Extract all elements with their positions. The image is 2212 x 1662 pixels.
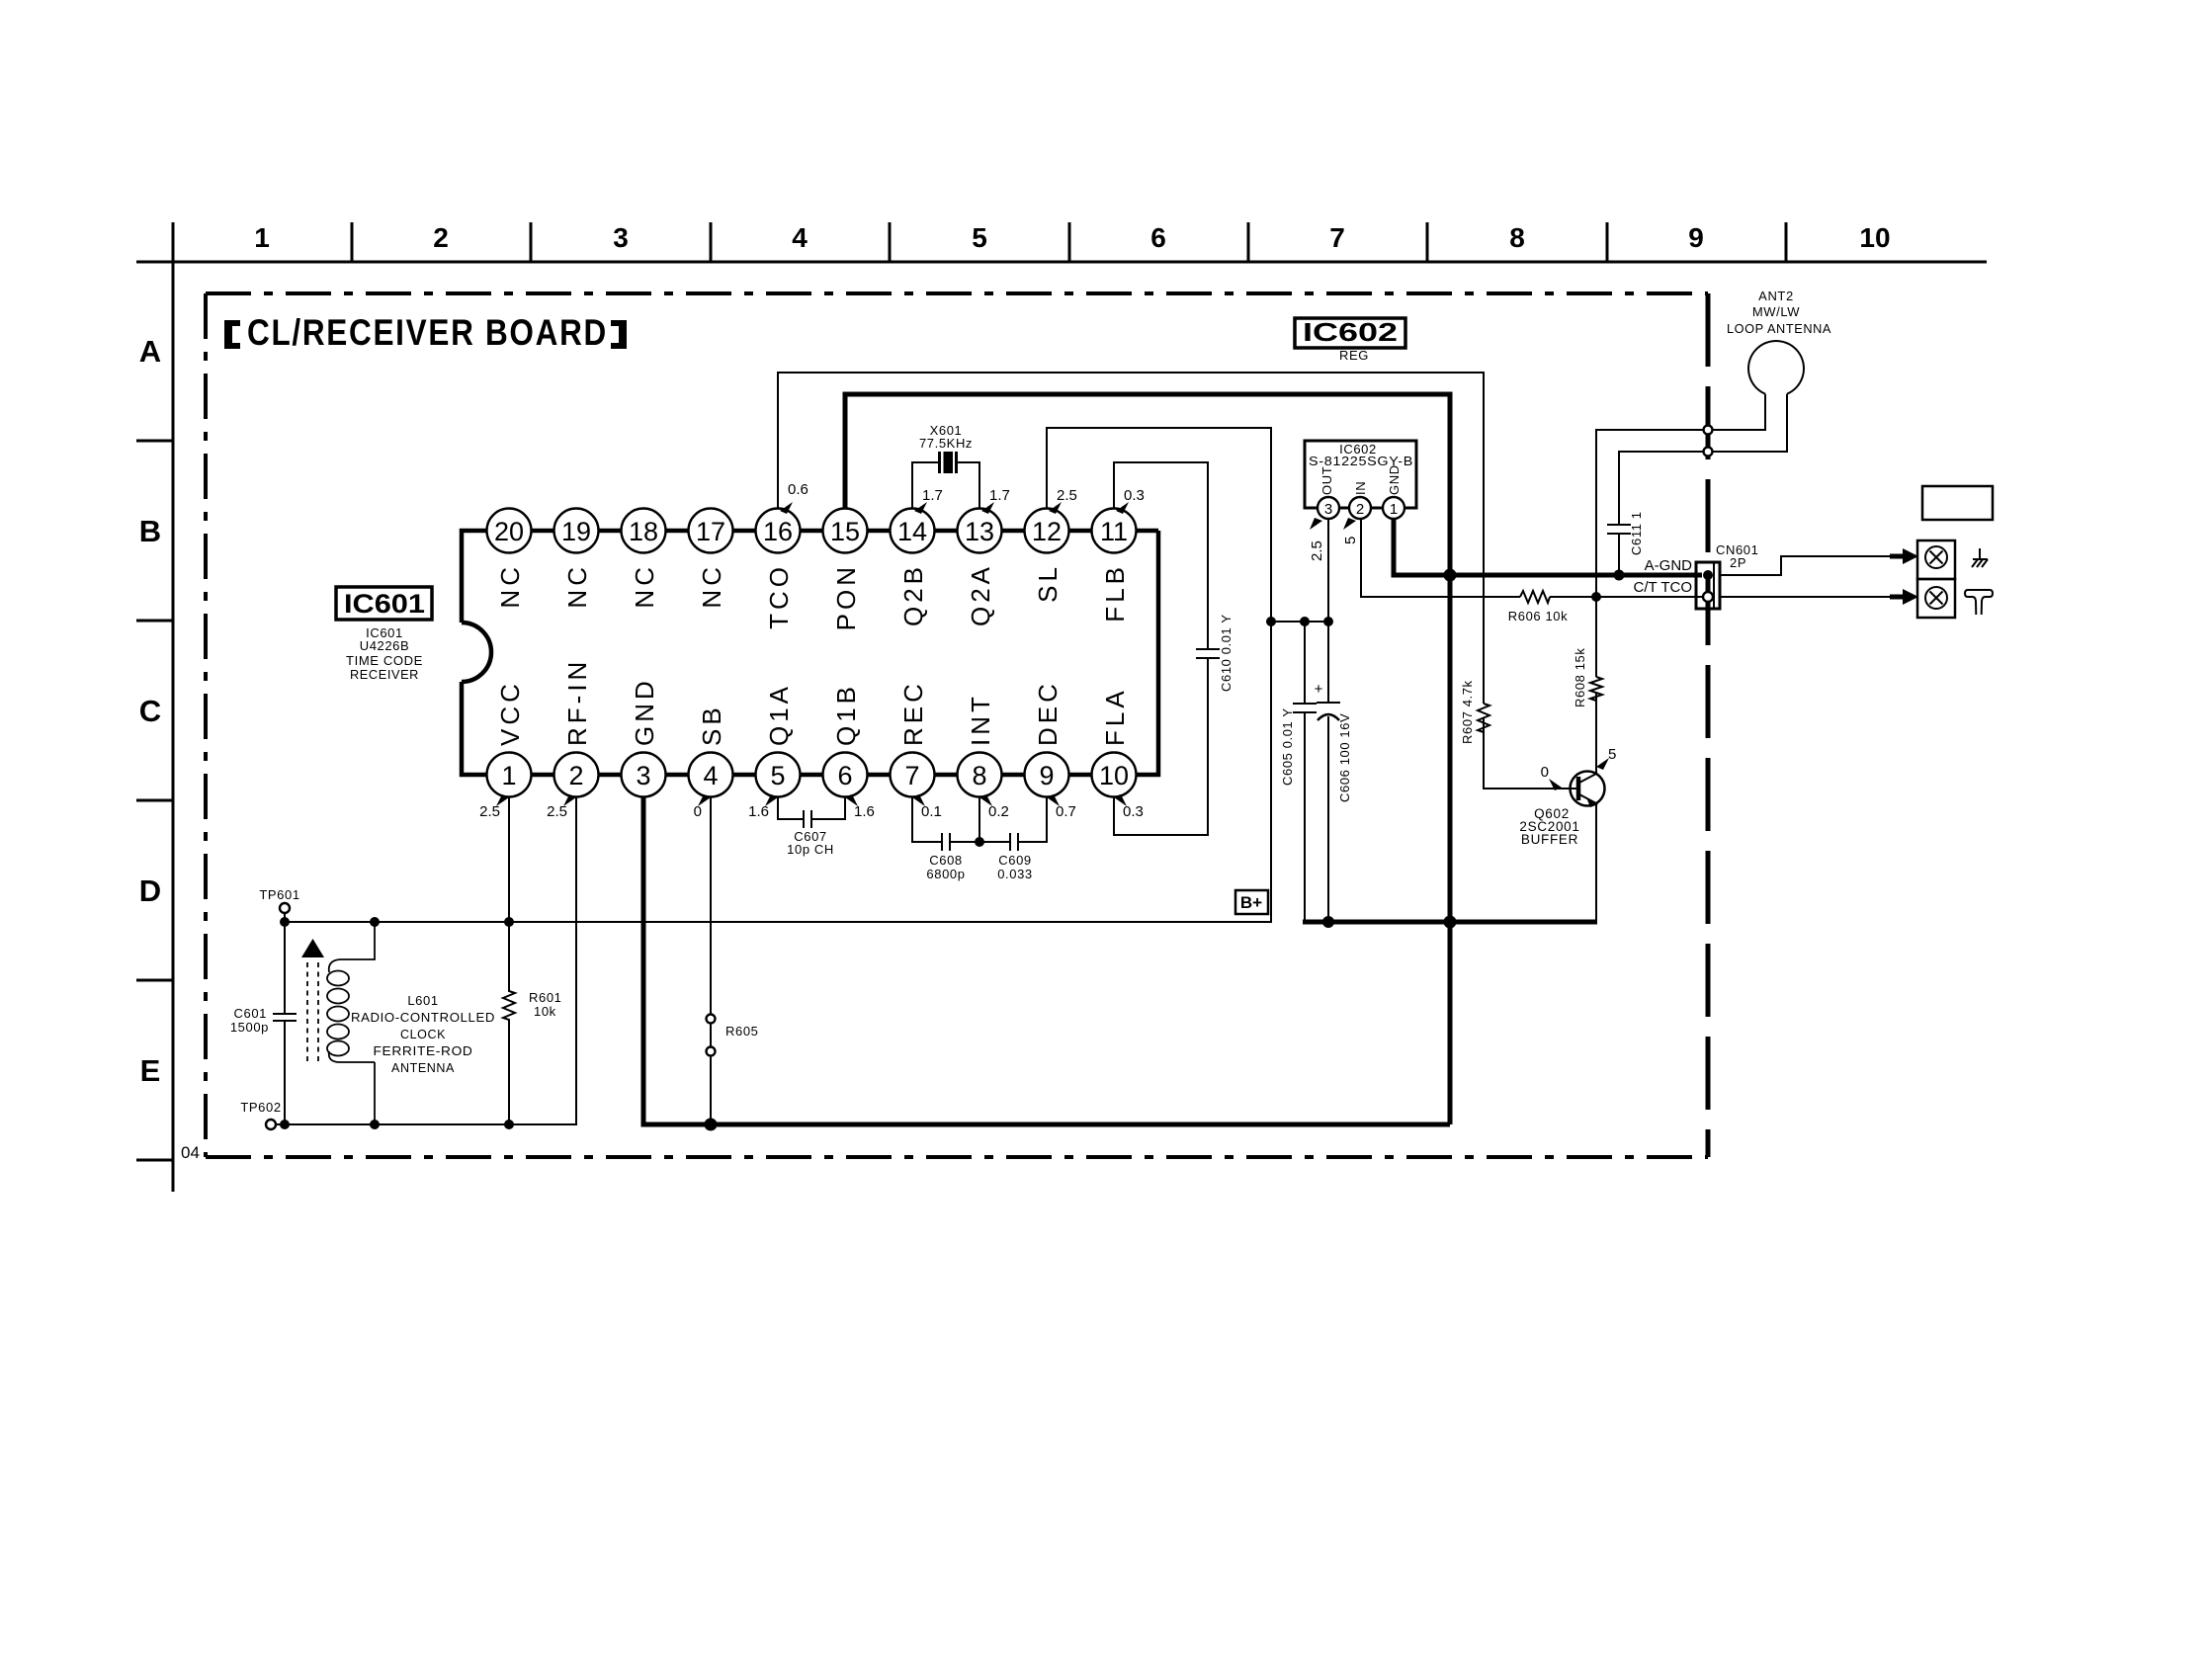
grid ruler top line xyxy=(136,222,1987,262)
svg-text:C608: C608 xyxy=(929,853,962,868)
svg-text:8: 8 xyxy=(1509,222,1525,253)
svg-text:GND: GND xyxy=(630,677,659,746)
grid row letters A-E xyxy=(139,334,161,1088)
svg-text:0.3: 0.3 xyxy=(1123,803,1144,820)
voltage label 0.3 pin11 xyxy=(1116,487,1145,514)
arrow to external C/T TCO xyxy=(1890,589,1918,605)
svg-text:D: D xyxy=(139,873,161,908)
svg-text:2.5: 2.5 xyxy=(547,803,567,820)
svg-text:CLOCK: CLOCK xyxy=(400,1027,446,1041)
svg-text:Q1A: Q1A xyxy=(764,683,794,746)
svg-text:R601: R601 xyxy=(529,990,561,1005)
test point TP601 xyxy=(259,887,299,922)
voltage label 2.5 pin1 xyxy=(479,794,509,820)
node junction A-GND thick riser xyxy=(1444,569,1457,582)
svg-text:9: 9 xyxy=(1688,222,1704,253)
node junctions GND mid rail xyxy=(1322,916,1457,929)
svg-text:MW/LW: MW/LW xyxy=(1752,304,1800,319)
svg-text:04: 04 xyxy=(181,1143,200,1162)
svg-text:5: 5 xyxy=(1342,537,1359,544)
resistor R601 10k xyxy=(503,797,561,1125)
capacitor C606 100 16V electrolytic xyxy=(1315,622,1352,922)
svg-text:14: 14 xyxy=(897,517,927,546)
svg-text:0.2: 0.2 xyxy=(988,803,1009,820)
antenna pad A-GND side xyxy=(1704,426,1713,435)
svg-text:Q2B: Q2B xyxy=(898,563,928,626)
svg-text:2.5: 2.5 xyxy=(1309,540,1325,561)
IC602 pin 1 xyxy=(1383,497,1404,519)
wire RF-IN net (pin2 down to TP602 line) xyxy=(276,797,576,1125)
svg-text:RF-IN: RF-IN xyxy=(562,658,592,746)
svg-text:10: 10 xyxy=(1859,222,1890,253)
IC601 part description labels xyxy=(346,625,423,682)
voltage label 0.6 pin16 xyxy=(780,481,808,514)
svg-text:ANT2: ANT2 xyxy=(1758,289,1794,303)
svg-text:C606 100 16V: C606 100 16V xyxy=(1337,713,1352,802)
ferrite rod arrow xyxy=(301,939,324,1062)
svg-text:BUFFER: BUFFER xyxy=(1521,832,1578,847)
svg-text:R608 15k: R608 15k xyxy=(1573,648,1587,707)
arrow to external A-GND xyxy=(1890,548,1918,564)
external terminal box C/T TCO xyxy=(1917,579,1955,618)
node junction C611 on A-GND xyxy=(1614,570,1625,581)
wire TCO net (pin16 up, over to R607) xyxy=(778,373,1578,789)
test point TP602 xyxy=(240,1100,281,1129)
wire R608 branch to Q602 collector xyxy=(1595,597,1597,774)
svg-text:ANTENNA: ANTENNA xyxy=(391,1060,455,1075)
wire C/T TCO to external xyxy=(1720,596,1890,598)
grid column numbers 1-10 xyxy=(254,222,1890,253)
svg-text:1.7: 1.7 xyxy=(989,487,1010,504)
node junctions 2.5V rail xyxy=(1266,617,1333,626)
svg-text:NC: NC xyxy=(495,563,525,609)
svg-text:B+: B+ xyxy=(1240,893,1262,912)
svg-text:TIME CODE: TIME CODE xyxy=(346,653,423,668)
voltage label 0.2 pin8 xyxy=(979,794,1009,820)
svg-text:4: 4 xyxy=(792,222,808,253)
IC602 pin 2 xyxy=(1349,497,1371,519)
svg-text:5: 5 xyxy=(972,222,987,253)
board title CL/RECEIVER BOARD xyxy=(224,312,627,353)
grid ruler left line xyxy=(136,224,173,1192)
capacitor C607 10p xyxy=(778,797,845,858)
svg-text:1: 1 xyxy=(1390,501,1398,518)
svg-text:CL/RECEIVER BOARD: CL/RECEIVER BOARD xyxy=(247,312,608,353)
voltage label 1.7 pin13 xyxy=(981,487,1010,514)
transistor Q602 2SC2001 xyxy=(1484,772,1605,808)
svg-text:C601: C601 xyxy=(234,1006,267,1021)
svg-text:1.6: 1.6 xyxy=(748,803,769,820)
svg-text:5: 5 xyxy=(770,761,785,790)
svg-text:7: 7 xyxy=(904,761,919,790)
svg-text:C/T TCO: C/T TCO xyxy=(1634,579,1692,596)
svg-text:0.7: 0.7 xyxy=(1056,803,1076,820)
svg-text:C610 0.01 Y: C610 0.01 Y xyxy=(1219,614,1234,692)
svg-text:0: 0 xyxy=(694,803,702,820)
Q602 labels xyxy=(1519,806,1579,847)
IC602 pin 3 xyxy=(1318,497,1339,519)
svg-text:6800p: 6800p xyxy=(926,867,965,881)
IC602 reference label box xyxy=(1295,317,1405,348)
unlabeled note box xyxy=(1922,486,1993,520)
svg-text:2P: 2P xyxy=(1730,555,1746,570)
svg-text:L601: L601 xyxy=(407,993,438,1008)
svg-text:TP601: TP601 xyxy=(259,887,299,902)
svg-text:+: + xyxy=(1315,681,1323,698)
IC602 regulator body xyxy=(1305,441,1416,508)
board right border dashed line xyxy=(1706,293,1711,1157)
svg-text:6: 6 xyxy=(1150,222,1166,253)
L601 description labels xyxy=(351,993,495,1075)
resistor R605 jumper xyxy=(707,1015,759,1056)
svg-text:20: 20 xyxy=(494,517,524,546)
svg-text:12: 12 xyxy=(1032,517,1062,546)
svg-text:0.6: 0.6 xyxy=(788,481,808,498)
svg-text:VCC: VCC xyxy=(495,680,525,746)
IC601 pin numbers top row xyxy=(494,517,1128,546)
svg-text:13: 13 xyxy=(965,517,994,546)
voltage label 0.7 pin9 xyxy=(1047,794,1076,820)
svg-text:8: 8 xyxy=(972,761,986,790)
wire IC602 pin3 OUT to 2.5V rail xyxy=(1327,519,1329,622)
svg-text:INT: INT xyxy=(966,693,995,746)
svg-text:DEC: DEC xyxy=(1033,680,1063,746)
svg-text:2: 2 xyxy=(433,222,449,253)
voltage label 2.5 pin2 xyxy=(547,794,576,820)
IC601 pin numbers bottom row xyxy=(501,761,1129,790)
svg-text:0.1: 0.1 xyxy=(921,803,942,820)
voltage label 0 pin4 xyxy=(694,794,711,820)
net label A-GND xyxy=(1645,557,1693,574)
svg-text:A-GND: A-GND xyxy=(1645,557,1693,574)
resistor R608 15k xyxy=(1573,648,1602,707)
svg-text:NC: NC xyxy=(562,563,592,609)
svg-text:NC: NC xyxy=(697,563,726,609)
voltage label 0.3 pin10 xyxy=(1114,794,1144,820)
IC601 pin circles bottom row 1-10 xyxy=(487,753,1137,797)
voltage label 2.5 pin12 xyxy=(1049,487,1077,514)
svg-text:10: 10 xyxy=(1099,761,1129,790)
svg-text:0: 0 xyxy=(1541,764,1549,781)
svg-text:IC601: IC601 xyxy=(344,589,425,619)
IC602 REG label xyxy=(1339,348,1369,363)
svg-text:3: 3 xyxy=(1324,501,1332,518)
capacitor C601 1500p xyxy=(230,922,297,1124)
svg-text:A: A xyxy=(139,334,161,369)
svg-text:RECEIVER: RECEIVER xyxy=(350,667,419,682)
voltage label 2.5 IC602 pin3 xyxy=(1309,518,1325,561)
svg-text:16: 16 xyxy=(763,517,793,546)
node junctions on TP602 rail xyxy=(280,1120,514,1129)
svg-text:NC: NC xyxy=(630,563,659,609)
svg-text:3: 3 xyxy=(613,222,629,253)
svg-text:FLA: FLA xyxy=(1100,687,1130,746)
inductor L601 coil xyxy=(327,922,375,1124)
svg-text:1: 1 xyxy=(254,222,270,253)
svg-text:18: 18 xyxy=(629,517,658,546)
svg-text:R605: R605 xyxy=(725,1024,758,1039)
svg-text:1: 1 xyxy=(501,761,516,790)
svg-text:Q1B: Q1B xyxy=(831,683,861,746)
chassis ground symbol xyxy=(1972,548,1988,567)
svg-text:B: B xyxy=(139,514,161,548)
IC601 pin name labels top row xyxy=(495,563,1130,630)
IC601 reference label box xyxy=(336,587,432,620)
svg-text:OUT: OUT xyxy=(1319,466,1334,495)
connector CN601 2P xyxy=(1696,542,1758,609)
voltage label 0.1 pin7 xyxy=(912,794,942,820)
resistor R606 10k xyxy=(1508,591,1568,623)
antenna pad TCO side xyxy=(1704,448,1713,457)
svg-text:C611 1: C611 1 xyxy=(1629,511,1644,555)
capacitor C609 0.033 xyxy=(979,797,1047,882)
svg-text:RADIO-CONTROLLED: RADIO-CONTROLLED xyxy=(351,1010,495,1025)
voltage label 5 IC602 pin2 xyxy=(1342,518,1359,544)
svg-text:SL: SL xyxy=(1033,563,1063,603)
svg-text:REC: REC xyxy=(898,680,928,746)
IC601 chip outline xyxy=(462,531,1158,775)
external terminal box A-GND xyxy=(1917,540,1955,579)
svg-text:C609: C609 xyxy=(998,853,1031,868)
voltage label 1.7 pin14 xyxy=(914,487,943,514)
svg-text:7: 7 xyxy=(1329,222,1345,253)
IC601 pin circles top row 20-11 xyxy=(487,509,1137,553)
svg-text:2: 2 xyxy=(568,761,583,790)
svg-text:R606 10k: R606 10k xyxy=(1508,609,1568,623)
node junction R605 on GND rail xyxy=(705,1119,718,1131)
voltage label 0 Q602 base xyxy=(1541,764,1562,790)
svg-text:0.3: 0.3 xyxy=(1124,487,1145,504)
svg-text:REG: REG xyxy=(1339,348,1369,363)
svg-text:2.5: 2.5 xyxy=(1057,487,1077,504)
voltage label 1.6 pin5 xyxy=(748,794,778,820)
svg-text:PON: PON xyxy=(831,563,861,630)
resistor R607 4.7k xyxy=(1460,680,1489,744)
wire GND thick mid rail under IC602 xyxy=(1303,920,1597,925)
board outline dash-dot border xyxy=(206,293,1708,1157)
svg-text:Q2A: Q2A xyxy=(966,563,995,626)
wire C/T TCO net from IC602 pin2 xyxy=(1361,519,1702,597)
loop antenna symbol xyxy=(1965,590,1993,615)
wire PON thick ground riser xyxy=(845,394,1450,1124)
node junctions on VCC rail xyxy=(280,917,514,927)
wire antenna pad to R608 junction xyxy=(1596,430,1703,597)
svg-text:IC602: IC602 xyxy=(1303,317,1398,347)
svg-text:15: 15 xyxy=(830,517,860,546)
svg-text:2: 2 xyxy=(1356,501,1364,518)
wire Q602 emitter to GND rail xyxy=(1595,803,1597,922)
IC601 pin name labels bottom row xyxy=(495,658,1130,746)
wire A-GND thick rail from IC602 pin1 xyxy=(1394,519,1702,575)
svg-text:IN: IN xyxy=(1353,481,1368,495)
svg-text:LOOP ANTENNA: LOOP ANTENNA xyxy=(1727,321,1831,336)
svg-text:1500p: 1500p xyxy=(230,1020,269,1035)
svg-text:C605 0.01 Y: C605 0.01 Y xyxy=(1280,707,1295,786)
svg-text:17: 17 xyxy=(696,517,725,546)
voltage label 1.6 pin6 xyxy=(845,794,875,820)
node junction C608/C609 pin8 xyxy=(975,837,984,847)
wire GND pin3 thick bottom rail xyxy=(643,797,1450,1125)
net label C/T TCO xyxy=(1634,579,1692,596)
svg-text:4: 4 xyxy=(703,761,718,790)
svg-text:FLB: FLB xyxy=(1100,563,1130,623)
svg-text:GND: GND xyxy=(1387,464,1402,495)
capacitor C610 0.01 FLB/FLA loop xyxy=(1114,462,1234,835)
svg-text:3: 3 xyxy=(636,761,650,790)
sheet number 04 xyxy=(181,1143,200,1162)
svg-text:TP602: TP602 xyxy=(240,1100,281,1115)
svg-text:5: 5 xyxy=(1608,746,1616,763)
svg-text:0.033: 0.033 xyxy=(997,867,1033,881)
svg-text:11: 11 xyxy=(1100,517,1128,546)
svg-text:9: 9 xyxy=(1039,761,1054,790)
svg-text:FERRITE-ROD: FERRITE-ROD xyxy=(374,1043,473,1058)
svg-text:C: C xyxy=(139,694,161,728)
svg-text:6: 6 xyxy=(837,761,852,790)
capacitor C608 6800p xyxy=(912,797,979,882)
voltage label 5 Q602 collector xyxy=(1596,746,1616,770)
crystal X601 77.5KHz xyxy=(912,423,979,509)
svg-text:R607 4.7k: R607 4.7k xyxy=(1460,680,1475,744)
svg-text:19: 19 xyxy=(561,517,591,546)
svg-text:1.6: 1.6 xyxy=(854,803,875,820)
wire A-GND to external xyxy=(1720,556,1890,575)
capacitor C605 0.01 xyxy=(1280,622,1317,922)
antenna ANT2 MW/LW xyxy=(1713,289,1831,452)
svg-text:TCO: TCO xyxy=(764,563,794,629)
B+ net label xyxy=(1235,890,1268,914)
wire SB net (pin4 down to R605) xyxy=(710,797,712,1125)
svg-text:10p CH: 10p CH xyxy=(787,842,834,857)
svg-text:2.5: 2.5 xyxy=(479,803,500,820)
svg-text:77.5KHz: 77.5KHz xyxy=(919,436,973,451)
svg-text:10k: 10k xyxy=(534,1004,556,1019)
node junction R608 top on C/T TCO xyxy=(1591,592,1601,602)
svg-text:U4226B: U4226B xyxy=(360,638,410,653)
svg-text:SB: SB xyxy=(697,704,726,746)
svg-text:1.7: 1.7 xyxy=(922,487,943,504)
wire VCC/B+ net (pin1 VCC, TP601, L601, R601, SL pin12, 2.5V rail) xyxy=(285,428,1329,922)
capacitor C611 1 xyxy=(1607,452,1708,575)
svg-text:E: E xyxy=(140,1053,161,1088)
